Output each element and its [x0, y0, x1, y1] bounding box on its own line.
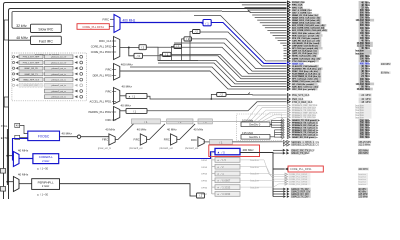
svg-text:/ 4: / 4 [221, 172, 224, 176]
output clock row XBAR_DIV4_CLK (xbar_d4) [287, 21, 371, 24]
wire blue path to XBAR row [211, 23, 286, 64]
svg-text:40 MHz: 40 MHz [18, 173, 29, 177]
svg-text:/ 1 • 50: / 1 • 50 [40, 168, 48, 171]
output row CORE_PLL_DFS6 (inactive) [285, 183, 368, 186]
output clock row PFEMAC0_TX_DIV CLK (inactive) [287, 109, 371, 112]
output clock row GMAC_RX_TX_REF (bold) [273, 149, 369, 153]
wire mux3 out [120, 70, 210, 72]
pll PERIPHPLL [32, 179, 60, 190]
svg-text:GMAC_TS_REF: GMAC_TS_REF [291, 152, 310, 155]
wire dfs4 inactive [240, 174, 285, 180]
output clock row XBAR_2X_CLK (xbar_2x) [287, 14, 371, 17]
svg-text:PFEMAC1_TX_DIV CLK: PFEMAC1_TX_DIV CLK [292, 116, 316, 119]
wire Fast IRC input [8, 39, 30, 41]
mux gmac ts 1 [109, 134, 115, 145]
output row CORE_PLL_DFS5 (inactive) [285, 180, 368, 183]
svg-text:Fast IRC: Fast IRC [39, 39, 54, 43]
riser to /2 d [190, 32, 193, 61]
output clock row GMAC_TS_REF (bold) [273, 152, 369, 156]
svg-text:125 MHz: 125 MHz [358, 197, 368, 199]
wire gmac mux 1 out [115, 124, 133, 140]
mux gmac ts 3 [171, 134, 177, 145]
svg-text:DFS3: DFS3 [201, 167, 207, 169]
svg-text:MHz: MHz [366, 94, 372, 97]
highlighted source CORE_PLL DFS1 [77, 24, 109, 30]
output clock row SPI_CLK (spi_periph_clk) [287, 47, 371, 50]
divider gmac /1 wide 3 [198, 119, 212, 124]
external clock row 1 [13, 55, 83, 59]
output clock row QSPI_2X_CLK (qspi_2x) [287, 52, 371, 55]
output clock row GMAC0_TX_DIV [273, 195, 368, 198]
wire w4 out to serdes row [232, 141, 282, 143]
output clock row GMAC0_REF_DIV [273, 190, 368, 193]
label extra freq marker 1 [381, 63, 392, 66]
svg-text:400 MHz: 400 MHz [381, 63, 391, 66]
pll COREPLL (selected) [33, 154, 59, 164]
output clock row CRC_CLK (crc_periph) [287, 88, 373, 91]
divider accel /1 [126, 93, 147, 98]
wire xtal to fxosc [20, 125, 28, 133]
svg-text:40 MHz: 40 MHz [105, 127, 115, 131]
wire periphpll out [60, 184, 197, 196]
svg-text:pfemac0_ext_rx: pfemac0_ext_rx [52, 67, 66, 70]
svg-text:GMAC0_TX_DIV: GMAC0_TX_DIV [291, 196, 309, 199]
output clock row PFEMAC1_REF_DIV CLK (inactive) [287, 111, 371, 114]
output clock row SIRC_CLK [287, 6, 370, 9]
svg-text:pfemac0_ext: pfemac0_ext [129, 147, 143, 150]
svg-text:/ 1: / 1 [132, 95, 136, 99]
output clock row PFEMAC1_TX_DIV CLK (inactive) [287, 116, 371, 119]
wire mux1 output (blue) [120, 22, 203, 24]
wire dfs feed bus [211, 152, 213, 194]
svg-text:DFS2: DFS2 [201, 160, 207, 162]
oscillator Fast IRC [31, 36, 62, 44]
highlighted destination CORE PLL DFS1 [288, 166, 323, 172]
svg-text:/ 1: / 1 [178, 120, 182, 124]
divider /2 c [184, 37, 192, 41]
svg-text:DFS6: DFS6 [201, 187, 207, 189]
wire a53 div2 out to row [226, 93, 287, 96]
output clock row PFEMAC0_RX_DIV CLK (inactive) [287, 106, 371, 109]
output clock row DAPB_CLK (dapb_dbg_clk) [287, 57, 371, 60]
svg-text:48 MHz: 48 MHz [16, 36, 28, 40]
label corepll divider [37, 168, 39, 169]
divider DFS2 / 1.5 [215, 158, 240, 163]
riser to /1 b [172, 46, 175, 60]
pin block 32k osc [4, 20, 8, 40]
pin block mid [4, 97, 8, 107]
output clock row SRAM_CLK (sram_axi_clk) [287, 80, 371, 83]
output clock row SAR_ADC_CLK (sar_adc) [287, 85, 371, 88]
svg-text:PERIPHPLL: PERIPHPLL [38, 180, 54, 184]
output clock row FLEXRAY_PE_CLK (fray_pe) [287, 67, 371, 70]
svg-text:CORE_PLL DFS1: CORE_PLL DFS1 [82, 25, 104, 29]
wire to PFEMAC0_REF_DIV CLK [160, 105, 286, 121]
external clock row 4 [13, 72, 83, 76]
svg-text:FTM_0_REF_CLK: FTM_0_REF_CLK [292, 101, 313, 104]
output row CORE_PLL_DFS3 (inactive) [285, 175, 368, 178]
divider DFS3 / 2 [215, 164, 240, 169]
pin xtal lower b [0, 187, 5, 192]
output clock row FTM_0_REF_CLK [1, 100, 372, 198]
output clock row I2C_CLK (i2c_periph) [287, 83, 374, 86]
svg-text:40 MHz: 40 MHz [62, 131, 73, 135]
output clock row SDHC_CLK (usdhc_clk) [287, 54, 371, 57]
divider DFS6 / 3.3333 [215, 185, 240, 190]
external clock row 3 [13, 66, 83, 70]
svg-text:DFS5: DFS5 [201, 181, 207, 183]
svg-text:MHz: MHz [365, 89, 371, 91]
wire periph div out to FTM row [147, 102, 287, 111]
output clock row LINFLEXD_CLK (linflexd) [287, 44, 373, 47]
mux MC_CGM_1 [114, 37, 120, 60]
svg-text:32 kHz: 32 kHz [16, 24, 27, 28]
group highlight red box [209, 145, 260, 157]
output clock row CM7_0_CORE_CLK [287, 9, 371, 12]
stair feed bus [146, 47, 198, 60]
svg-text:/ 3.3333: / 3.3333 [221, 185, 231, 189]
svg-text:MHz: MHz [366, 101, 372, 104]
svg-text:40 MHz: 40 MHz [122, 84, 133, 88]
svg-text:XTAL: XTAL [1, 124, 8, 128]
group EXTERNAL CLOCKS [12, 53, 87, 101]
svg-text:/ 6.6667: / 6.6667 [221, 179, 231, 183]
output clock row FLEXTIMER_A_CLK (ftm_a) [287, 72, 371, 75]
wire riser to a53 /2 [211, 94, 216, 99]
divider /3 [134, 53, 143, 58]
svg-text:GenDiv 1: GenDiv 1 [249, 135, 261, 139]
svg-text:/ 1: / 1 [176, 45, 180, 49]
label extra freq marker 2 [381, 71, 391, 74]
svg-text:/ 1: / 1 [219, 140, 223, 144]
svg-text:MHz: MHz [365, 137, 371, 139]
svg-text:GMAC_MII_TX: GMAC_MII_TX [24, 73, 38, 76]
output clock row DDR_CLK (ddr_sdram_clk) [287, 32, 371, 35]
wire dfs3 inactive [240, 167, 285, 177]
svg-text:DDR_PLL PFD0: DDR_PLL PFD0 [93, 73, 112, 77]
svg-text:/ 2: / 2 [221, 165, 224, 169]
svg-text:pfemac2_ext_tx: pfemac2_ext_tx [52, 96, 66, 99]
svg-text:DFS7: DFS7 [201, 194, 207, 196]
svg-text:/ 1 • 50: / 1 • 50 [40, 194, 48, 197]
svg-text:/ 2: / 2 [195, 30, 199, 34]
divider /1 b [174, 44, 182, 48]
svg-text:CORE_PLL DFS2: CORE_PLL DFS2 [91, 45, 112, 49]
output clock row PFE_PE_CLK (pfe_engine) [287, 37, 371, 40]
svg-text:pfemac1_ext_ref: pfemac1_ext_ref [51, 61, 66, 64]
wire CORE_PLL DFS1 to mux [109, 26, 114, 28]
wire mux2 out [120, 47, 139, 49]
svg-text:CORE_PLL PFD3: CORE_PLL PFD3 [91, 50, 112, 54]
wire Slow IRC output to top bus [12, 11, 222, 28]
svg-text:GMAC_RX_CLK gmac_rx: GMAC_RX_CLK gmac_rx [292, 136, 319, 139]
output clock row PFEMAC1_TX_CLK p1_tx [281, 126, 371, 130]
divider DFS1 /5 (selected) [215, 148, 240, 154]
mux XBAR source (selected) [114, 15, 120, 33]
mux MC_CGM_6 [114, 107, 120, 121]
output clock row SERDES_1_XPCS_0_CG [283, 143, 371, 146]
svg-text:pfemac1_ext_tx: pfemac1_ext_tx [52, 84, 66, 87]
svg-text:GenDiv 0: GenDiv 0 [249, 123, 261, 127]
divider DFS7 / 3.3333 [215, 192, 240, 197]
svg-text:/ 3: / 3 [137, 54, 141, 58]
svg-text:/ 1.5: / 1.5 [221, 158, 227, 162]
mux MC_CGM_5 [114, 88, 120, 105]
pin xtal lower a [0, 169, 5, 174]
wire mux4g out [204, 141, 209, 143]
chip outer border [4, 3, 287, 200]
output clock row CAN_PE_CLK (can_pe_clk) [287, 39, 371, 42]
wire to PFEMAC1_RX_DIV CLK [162, 115, 286, 122]
svg-text:FXOSC: FXOSC [38, 134, 50, 138]
svg-text:pfemac2_ext: pfemac2_ext [185, 147, 199, 150]
wire dfs1 out [240, 153, 285, 197]
svg-text:/ 1: / 1 [144, 120, 148, 124]
svg-text:PFE_SYS_CLK: PFE_SYS_CLK [292, 94, 310, 97]
chip inner border [9, 9, 287, 200]
oscillator FXOSC (selected) [28, 131, 60, 141]
external clock row 7 [45, 89, 83, 93]
output clock row A53_CORE_DIV2_CLK (a53_d2) [287, 26, 371, 29]
output clock row PFEMAC1_RX_DIV CLK (inactive) [287, 114, 371, 117]
divider DFS4 / 4 [215, 171, 240, 176]
wire corepll out blue to /5 [59, 152, 215, 159]
svg-text:gmac_ext_tx: gmac_ext_tx [98, 147, 112, 150]
svg-text:EXTAL: EXTAL [1, 136, 10, 140]
mux MC_CGM_2 [114, 64, 120, 81]
output clock row PFEMAC1_RX_CLK p1_rx [281, 128, 371, 132]
divider /1 a [163, 52, 172, 56]
svg-text:pfemac1_ext_rx: pfemac1_ext_rx [52, 79, 66, 82]
wire to PFEMAC1_REF_DIV CLK [162, 113, 287, 122]
divider DFS5 / 6.6667 [215, 178, 240, 183]
svg-text:40 MHz: 40 MHz [167, 127, 177, 131]
output clock row PER_CLK [1, 98, 372, 199]
divider /1 (selected, blue) [201, 22, 203, 25]
output row CORE_PLL_DFS2 (inactive) [285, 173, 368, 176]
svg-text:/ 1: / 1 [205, 21, 209, 25]
wire fan to output rows [239, 1, 286, 3]
wire to corepll mux [7, 155, 13, 157]
wire extal to fxosc [20, 136, 28, 138]
svg-text:Slow IRC: Slow IRC [38, 27, 53, 31]
oscillator Slow IRC [31, 24, 62, 32]
svg-text:GMAC_MII_RX: GMAC_MII_RX [24, 67, 38, 70]
svg-text:66.666: 66.666 [357, 89, 365, 91]
svg-text:400 MHz: 400 MHz [121, 62, 134, 66]
output clock row XBAR_CLK [287, 62, 371, 65]
svg-text:/ 2: / 2 [141, 45, 145, 49]
wire periph mux out [19, 183, 32, 185]
svg-text:/ 1: / 1 [204, 120, 208, 124]
output clock row XBAR_DIV3_CLK (xbar_d3) [287, 19, 374, 22]
wire mux4 out [120, 95, 126, 97]
svg-text:/ 1: / 1 [133, 109, 137, 113]
svg-text:40 MHz: 40 MHz [137, 127, 147, 131]
svg-text:GTM_EXT_CNT: GTM_EXT_CNT [24, 85, 39, 87]
output clock row GMAC0_RX_DIV [273, 193, 368, 196]
output row CORE_PLL_DFS4 (inactive) [285, 178, 368, 181]
label 400 MHz dest [358, 168, 369, 171]
divider /2 d [193, 30, 201, 34]
svg-text:FIRC: FIRC [105, 118, 111, 122]
wire fxosc out [60, 136, 109, 138]
svg-text:2 GHz: 2 GHz [42, 159, 50, 163]
svg-text:40 MHz: 40 MHz [121, 103, 132, 107]
divider /2 [139, 45, 146, 50]
box GenDiv 0 [241, 122, 270, 127]
svg-text:FTM_1_EXT_REF: FTM_1_EXT_REF [23, 62, 40, 64]
output clock row LIN_BAUD_CLK (lin_baud) [287, 42, 373, 45]
node fxosc out [77, 135, 80, 138]
mux periphpll [13, 177, 19, 192]
box GenDiv 1 [241, 135, 270, 140]
svg-text:FIRC: FIRC [164, 138, 170, 142]
svg-text:312.5 MHz: 312.5 MHz [358, 144, 370, 147]
divider a53 /2 [217, 93, 226, 97]
output clock row PER_CLK (per_periph_clk) [287, 34, 371, 37]
svg-text:FIRC_CLK: FIRC_CLK [99, 39, 112, 43]
wire to PFEMAC0_RX_DIV CLK [161, 108, 287, 122]
svg-text:COREPLL: COREPLL [39, 155, 53, 159]
label periphpll divider [37, 194, 39, 195]
riser to /2 c [182, 39, 185, 61]
mux gmac ts 4 [198, 137, 204, 147]
svg-text:400 MHz: 400 MHz [243, 148, 255, 152]
svg-text:Inactive: Inactive [355, 116, 364, 119]
svg-text:FIRC: FIRC [105, 89, 111, 93]
output clock row PFEMAC0_TX_CLK p0_tx [281, 121, 371, 125]
wire GenDiv1 tree [270, 130, 275, 138]
wire a53 /2 out [226, 93, 250, 95]
svg-text:FTM_0_EXT_REF: FTM_0_EXT_REF [23, 57, 40, 59]
external clock row 2 [13, 61, 83, 65]
svg-text:400 MHz: 400 MHz [358, 168, 368, 171]
divider periph /1 [126, 108, 147, 113]
external clock row 5 [13, 78, 83, 82]
divider gmac /1 wide 4 [209, 139, 232, 144]
wire to PFEMAC1_TX_DIV CLK [163, 117, 287, 121]
output clock row PFEMAC0_REF_DIV CLK (inactive) [287, 104, 371, 107]
svg-text:pfemac0_ext_ref: pfemac0_ext_ref [51, 56, 66, 59]
output clock row PFEMAC0_RX_CLK p0_rx [281, 124, 371, 128]
divider gmac /1 wide 1 [132, 119, 161, 124]
output clock row SPT_CLK (spt_radar_clk) [287, 77, 371, 80]
svg-text:/ 3.3333: / 3.3333 [221, 192, 231, 196]
output clock row PFEMAC2_TX_CLK p2_tx [281, 131, 371, 135]
svg-text:SERDES_1_XPCS_0_CG: SERDES_1_XPCS_0_CG [291, 144, 319, 147]
svg-text:/ 5: / 5 [222, 151, 226, 155]
svg-text:FIRC: FIRC [102, 138, 108, 142]
svg-text:80 MHz: 80 MHz [381, 72, 390, 75]
output clock row FRAY_CLK (fray_clk_div) [287, 70, 371, 73]
output clock row FLEXTIMER_B_CLK (ftm_b) [287, 75, 371, 78]
output clock row CLKOUT1_CLK (clkout1) [287, 65, 371, 68]
wire dfs6 inactive [240, 184, 285, 187]
group GenDiv dashed [237, 114, 282, 141]
svg-text:pfemac2_ext_rx: pfemac2_ext_rx [52, 90, 66, 93]
wire gmac mux 3 out [177, 124, 195, 140]
output clock row PFE_SYS_CLK [1, 94, 372, 199]
output clock row GMAC0_TS_DIV [273, 188, 368, 191]
svg-text:FIRC: FIRC [134, 138, 140, 142]
output clock row QSPI_1X_CLK (qspi_1x) [287, 49, 371, 52]
wire dfs5 inactive [240, 180, 285, 181]
wire to PFEMAC0_TX_DIV CLK [161, 110, 286, 121]
svg-text:FIRC: FIRC [191, 138, 197, 142]
svg-text:pfemac0_ext_tx: pfemac0_ext_tx [52, 73, 66, 76]
external clock row 8 [45, 95, 83, 99]
wire blue fxosc to corepll mux [13, 139, 28, 161]
output clock row CTU_CLK (ctu_trigger) [287, 60, 371, 63]
svg-text:FIRC: FIRC [102, 17, 109, 21]
output clock row PFEMAC2_RX_CLK p2_rx [281, 133, 371, 137]
wire mux5 out [120, 110, 126, 112]
svg-text:2 GHz: 2 GHz [42, 184, 50, 188]
output clock row GMAC0_TX_CLK gmac0_tx [281, 119, 371, 123]
svg-text:40 MHz: 40 MHz [194, 127, 204, 131]
svg-text:PERIPH_PLL PFD2: PERIPH_PLL PFD2 [89, 110, 113, 114]
wire to periphpll mux [7, 181, 13, 183]
svg-text:DFS4: DFS4 [201, 174, 207, 176]
mux gmac ts 2 [140, 134, 146, 145]
svg-text:40 MHz: 40 MHz [18, 149, 29, 153]
output clock row CM7_1_CORE_CLK [287, 11, 371, 14]
wire accel out [147, 96, 287, 99]
mux corepll (selected) [13, 152, 19, 167]
output clock row XBAR_DIV2_CLK (xbar_d2) [287, 16, 371, 19]
output clock row SERDES_1_XPCS_1_CG [283, 140, 372, 143]
svg-text:GMAC_REF_CLK: GMAC_REF_CLK [23, 79, 40, 82]
output clock row A53_CORE_CLK (a53_core_clk) [287, 24, 371, 27]
svg-text:200 MHz: 200 MHz [358, 152, 369, 155]
output clock row FIRC_CLK [287, 3, 371, 6]
svg-text:/ 2: / 2 [220, 93, 224, 97]
svg-text:Inactive: Inactive [358, 183, 366, 186]
svg-text:CRC_CLK (crc_periph): CRC_CLK (crc_periph) [292, 89, 315, 91]
value box 40 [15, 123, 20, 127]
divider periph out /1 [197, 193, 205, 198]
value box extal [15, 135, 20, 139]
output clock row A53_CORE_DIV10_CLK (a53_d10) [287, 29, 371, 32]
svg-text:/ 2: / 2 [186, 37, 190, 41]
wire branch to /3 [129, 48, 134, 56]
output clock row FXOSC_CLK [287, 1, 371, 4]
wire corepll mux out (blue) [19, 158, 33, 160]
junction node [128, 47, 130, 49]
external clock row 6 [13, 83, 83, 87]
output clock row GMAC_RX_CLK gmac_rx [281, 136, 371, 140]
riser to /1 a [160, 54, 163, 60]
wire fxosc distribution vertical [6, 129, 8, 185]
wire dfs2 inactive [240, 160, 285, 174]
svg-text:ACCEL_PLL PFD1: ACCEL_PLL PFD1 [90, 100, 113, 104]
svg-text:pfemac1_ext: pfemac1_ext [160, 147, 174, 150]
wire gmac mux 2 out [147, 124, 165, 140]
svg-text:CORE_PLL_DFS1: CORE_PLL_DFS1 [290, 167, 312, 171]
svg-text:CORE_PLL_DFS6: CORE_PLL_DFS6 [289, 184, 308, 186]
divider gmac /1 wide 2 [167, 119, 193, 124]
svg-text:FIRC: FIRC [105, 67, 111, 71]
wire GenDiv0 tree [270, 120, 272, 127]
